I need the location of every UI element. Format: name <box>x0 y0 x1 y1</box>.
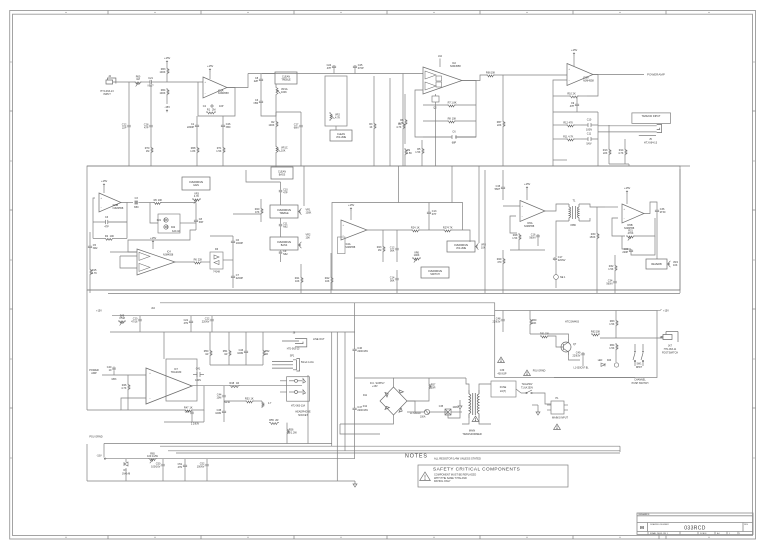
capacitor C11b <box>279 223 282 227</box>
svg-text:68P: 68P <box>452 142 457 145</box>
svg-text:47P: 47P <box>104 226 109 229</box>
wire <box>624 139 626 148</box>
wire <box>626 193 628 204</box>
border tick right <box>753 209 756 211</box>
wire <box>262 332 264 349</box>
wire <box>262 357 264 365</box>
svg-text:1R: 1R <box>205 353 208 356</box>
rail nest 3 <box>176 452 620 454</box>
svg-text:+15V: +15V <box>663 310 669 313</box>
svg-text:1.5K: 1.5K <box>609 323 614 326</box>
wire <box>125 459 127 462</box>
capacitor C10b <box>279 189 282 193</box>
wire <box>203 410 205 422</box>
svg-text:1.8K: 1.8K <box>190 150 195 153</box>
wire <box>350 210 352 220</box>
border mark top <box>619 11 621 13</box>
potentiometer VR5 <box>299 242 302 248</box>
svg-text:1R: 1R <box>265 353 268 356</box>
border mark top <box>154 11 156 13</box>
wire <box>280 182 282 189</box>
wire <box>404 156 406 166</box>
capacitor C38 mains <box>445 409 451 415</box>
potentiometer VR4 <box>299 208 302 214</box>
svg-text:INPUT: INPUT <box>103 93 111 96</box>
LED D23 <box>601 363 605 366</box>
wire drop D <box>336 332 338 481</box>
wire <box>529 311 531 319</box>
switch SW1a <box>633 344 636 366</box>
svg-text:100K: 100K <box>160 92 166 95</box>
svg-text:220NV: 220NV <box>558 259 566 262</box>
capacitor C41 <box>193 372 204 377</box>
svg-text:NJM4558: NJM4558 <box>113 207 124 210</box>
wire sw feed <box>516 389 521 393</box>
wire <box>190 324 192 332</box>
svg-text:560?: 560? <box>495 188 501 191</box>
svg-text:R12 47K: R12 47K <box>563 121 573 124</box>
capacitor C6 <box>423 135 476 139</box>
wire <box>573 55 575 66</box>
wire <box>555 250 557 257</box>
wire <box>407 411 424 413</box>
wire <box>553 159 567 161</box>
svg-text:N50: N50 <box>134 206 139 209</box>
svg-text:+15V: +15V <box>164 56 170 60</box>
wire <box>582 356 584 366</box>
svg-text:REMARKS: REMARKS <box>639 513 650 516</box>
svg-text:-15V: -15V <box>164 105 170 109</box>
op-amp IC1A <box>203 77 227 98</box>
wire <box>420 229 443 231</box>
bus mid 2 <box>108 293 680 295</box>
box VR2 network <box>325 76 347 126</box>
capacitor C47 <box>353 407 357 411</box>
svg-text:47N: 47N <box>178 466 183 469</box>
resistor R71 <box>223 146 225 154</box>
wire fb bottom <box>164 421 204 423</box>
wire <box>184 468 186 481</box>
svg-text:M63: M63 <box>112 378 117 381</box>
border tick top <box>386 11 388 15</box>
capacitor C49 <box>581 352 584 356</box>
ground mains earth <box>536 409 540 415</box>
capacitor C48 <box>501 318 504 322</box>
wire drop E <box>344 332 346 451</box>
wire <box>228 332 230 349</box>
svg-text:ALL RESISTOR 1/4W UNLESS STATE: ALL RESISTOR 1/4W UNLESS STATED <box>434 457 481 461</box>
potentiometer VR1C <box>276 145 278 154</box>
border tick right <box>753 407 756 409</box>
wire <box>222 128 224 146</box>
svg-text:1.5K: 1.5K <box>512 237 517 240</box>
svg-text:SWITCH: SWITCH <box>430 273 440 276</box>
wire IC5B out <box>644 202 657 214</box>
svg-text:1M: 1M <box>378 249 381 252</box>
wire <box>576 96 578 103</box>
svg-text:10K: 10K <box>281 150 286 153</box>
rail psu gnd <box>104 443 332 445</box>
wire <box>152 243 154 249</box>
svg-text:−: − <box>149 396 151 400</box>
transformer T1 reverb <box>569 204 579 221</box>
ground main <box>353 481 357 487</box>
diode D22 <box>164 225 168 229</box>
wire IC3B in rail <box>93 198 95 238</box>
op-amp IC5A <box>520 201 545 222</box>
diode D9 <box>124 462 128 466</box>
wire <box>300 128 302 166</box>
svg-text:10K: 10K <box>325 280 330 283</box>
capacitor C52 <box>205 463 208 467</box>
svg-text:10K: 10K <box>306 236 311 239</box>
svg-text:HTC/2N4403: HTC/2N4403 <box>565 321 580 324</box>
svg-text:VOLUME: VOLUME <box>336 136 347 139</box>
capacitor C44 <box>222 394 225 398</box>
svg-text:2200/16V: 2200/16V <box>357 409 368 412</box>
wire right fb rail <box>597 112 599 150</box>
wire <box>579 95 587 97</box>
warning triangle fuse 2 <box>524 370 531 376</box>
svg-text:HTJ-064-13: HTJ-064-13 <box>644 141 658 144</box>
resistor R12 <box>566 125 575 127</box>
svg-text:R10 2K: R10 2K <box>567 92 576 95</box>
svg-text:22K: 22K <box>497 124 502 127</box>
capacitor C11 <box>581 137 598 141</box>
wire drop VR7 feed <box>478 166 480 243</box>
title block tick <box>658 535 660 540</box>
wire <box>421 155 423 166</box>
wire <box>628 164 630 166</box>
connector P1 mains input <box>551 401 564 414</box>
wire IC2 fb right <box>455 81 476 138</box>
resistor R3 <box>374 122 376 130</box>
wire Q7 emit <box>569 355 581 360</box>
resistor R30 <box>597 232 599 240</box>
svg-text:NJM4558: NJM4558 <box>583 79 594 82</box>
svg-text:1K: 1K <box>189 406 192 409</box>
svg-text:470: 470 <box>497 261 502 264</box>
IC2 internal network <box>436 76 442 87</box>
wire <box>127 391 129 410</box>
switch SW1b <box>641 344 644 366</box>
svg-text:R53: R53 <box>245 397 250 400</box>
border mark top <box>247 11 249 13</box>
border tick top <box>200 11 202 15</box>
border mark top <box>340 11 342 13</box>
wire tape gnd <box>609 163 629 165</box>
svg-text:C21: C21 <box>148 77 153 80</box>
power +15V IC1A <box>209 69 211 71</box>
wire <box>196 116 198 124</box>
wire clip to IC4 <box>128 230 196 252</box>
wire <box>396 251 398 262</box>
wire <box>162 459 164 463</box>
switch SW2 mains <box>521 390 537 394</box>
op-amp IC5B <box>622 204 644 223</box>
power +15V IC3B <box>103 184 105 186</box>
wire <box>190 316 192 320</box>
wire xfmr pri bot <box>462 418 469 424</box>
svg-text:68N: 68N <box>294 127 299 130</box>
svg-text:100N: 100N <box>195 379 201 382</box>
bus middle bottom <box>87 289 680 291</box>
wire <box>631 236 655 255</box>
warning triangle mains <box>554 424 561 430</box>
wire tone tap <box>276 111 301 113</box>
connector J6 line out jack <box>282 339 307 347</box>
svg-text:22K: 22K <box>603 152 608 155</box>
wire od stack top <box>246 170 281 182</box>
wire fb 1 <box>121 398 184 410</box>
connector J5 tape jack <box>657 124 662 132</box>
capacitor C22b <box>210 318 213 322</box>
svg-text:HTJ-063-13A: HTJ-063-13A <box>291 405 306 408</box>
wire IC2 out <box>462 75 486 81</box>
svg-text:SW1: SW1 <box>637 364 643 366</box>
svg-text:100K: 100K <box>281 91 287 94</box>
wire C28 drop <box>150 85 152 124</box>
resistor R63b <box>616 319 618 327</box>
border mark right <box>753 160 755 162</box>
capacitor C5 <box>88 245 92 249</box>
svg-text:4.7K: 4.7K <box>335 117 340 120</box>
border tick bottom <box>572 536 574 540</box>
svg-text:DRAWING NUMBER: DRAWING NUMBER <box>650 523 669 526</box>
wire <box>396 281 398 293</box>
svg-text:0/1.2W: 0/1.2W <box>289 432 298 435</box>
svg-text:39P: 39P <box>199 221 204 224</box>
svg-text:T1.6A 250V: T1.6A 250V <box>521 386 533 389</box>
resistor R28 <box>519 233 521 241</box>
wire <box>502 190 504 200</box>
border mark bottom <box>433 536 435 538</box>
border tick top <box>665 11 667 15</box>
wire <box>614 272 616 280</box>
border mark right <box>753 259 755 261</box>
wire clip in <box>150 203 158 224</box>
wire <box>300 112 302 124</box>
wire <box>402 130 404 166</box>
wire <box>275 84 277 86</box>
resistor R18 <box>153 203 162 205</box>
wire <box>260 199 262 207</box>
resistor R51 <box>229 349 231 357</box>
wire C22 drop <box>128 82 130 124</box>
wire <box>103 444 105 458</box>
border tick left <box>10 110 13 112</box>
wire <box>275 128 277 145</box>
wire <box>502 311 504 319</box>
wire <box>195 203 197 220</box>
wire <box>423 120 447 122</box>
svg-text:NJM4558: NJM4558 <box>163 254 174 257</box>
power +15V IC4A <box>350 208 352 210</box>
svg-text:470K: 470K <box>628 232 634 235</box>
wire IC2 fb left <box>415 90 423 137</box>
svg-text:100K: 100K <box>269 124 275 127</box>
svg-text:T2AL250V: T2AL250V <box>522 383 533 386</box>
svg-text:2M: 2M <box>212 108 215 111</box>
svg-text:100K: 100K <box>306 211 312 214</box>
wire left drop2 <box>86 444 88 481</box>
potentiometer VR3 <box>192 199 201 201</box>
border mark bottom <box>65 536 67 538</box>
capacitor C21b <box>189 320 193 324</box>
wire <box>553 95 569 97</box>
wire <box>502 128 504 166</box>
svg-text:1000P: 1000P <box>236 242 244 245</box>
resistor R55 <box>269 423 279 425</box>
wire <box>228 357 230 365</box>
wire tape feed 1 <box>598 125 657 127</box>
wire <box>614 255 616 264</box>
wire bridge bottom <box>340 415 394 424</box>
power +15V IC5B <box>626 191 628 193</box>
svg-text:M: M <box>640 525 644 530</box>
svg-text:L1 630CM: L1 630CM <box>410 413 421 415</box>
svg-text:1.5K: 1.5K <box>216 150 221 153</box>
svg-text:TRANSFORMER: TRANSFORMER <box>462 433 482 436</box>
svg-text:150K: 150K <box>590 236 596 239</box>
svg-text:TAPE/CD INPUT: TAPE/CD INPUT <box>642 115 661 118</box>
wire <box>206 467 208 481</box>
LED D23 lamp <box>614 363 618 367</box>
op-amp IC3A <box>567 64 593 86</box>
rail nest 2 <box>168 450 620 452</box>
svg-text:56K: 56K <box>390 280 395 283</box>
wire <box>150 154 152 166</box>
wire Q7 base <box>549 336 561 347</box>
wire <box>373 76 375 122</box>
wire <box>614 284 616 293</box>
wire od in 2 <box>120 256 137 268</box>
wire <box>502 265 504 293</box>
border tick right <box>753 110 756 112</box>
capacitor C15 <box>501 186 505 190</box>
footswitch section box <box>495 311 657 378</box>
power +15V footswitch <box>657 309 662 310</box>
wire J4 to R60 <box>116 81 135 83</box>
wire IC5A in <box>503 205 520 207</box>
amplifier IC7 TDA2030 box <box>166 359 197 401</box>
capacitor C36 <box>655 209 659 213</box>
wire fb 2 <box>193 386 204 410</box>
wire <box>615 327 617 338</box>
wire <box>93 237 104 239</box>
power -15V bias <box>166 110 168 112</box>
wire <box>596 207 598 232</box>
wire <box>619 446 621 452</box>
wire <box>222 116 224 124</box>
border tick right <box>753 308 756 310</box>
svg-text:VOLUME: VOLUME <box>456 247 467 250</box>
svg-text:FUSE: FUSE <box>500 386 507 389</box>
wire <box>89 232 91 245</box>
capacitor C45 <box>222 410 226 414</box>
resistor R9 <box>405 148 407 156</box>
power +15V IC4 <box>152 241 154 243</box>
svg-text:BASS: BASS <box>281 244 288 247</box>
wire <box>615 311 617 320</box>
svg-text:22K: 22K <box>198 258 203 261</box>
wire <box>222 154 224 166</box>
wire <box>553 111 598 113</box>
op-amp IC4A <box>341 220 367 240</box>
potentiometer VR2 <box>330 112 332 121</box>
svg-text:REV: REV <box>744 524 749 526</box>
svg-text:C38: C38 <box>185 410 190 413</box>
transistor Q2 <box>432 94 439 105</box>
rail +15V bottom <box>112 315 495 317</box>
resistor R24 <box>411 230 420 232</box>
svg-text:1M: 1M <box>146 150 149 153</box>
wire <box>125 468 127 481</box>
svg-text:NJM4558: NJM4558 <box>524 225 535 228</box>
wire <box>209 357 211 365</box>
wire <box>202 261 210 263</box>
wire top bus <box>262 73 333 75</box>
wire <box>224 400 245 402</box>
wire drop A <box>354 303 356 348</box>
contact plug B <box>289 390 306 394</box>
wire <box>502 322 504 332</box>
potentiometer VR6 <box>412 258 421 260</box>
wire IC5A fb <box>510 216 517 233</box>
svg-text:100A: 100A <box>420 416 426 419</box>
svg-text:1.5K: 1.5K <box>608 268 613 271</box>
capacitor C16 <box>536 234 539 238</box>
wire <box>421 140 423 147</box>
wire <box>340 424 380 434</box>
wire <box>232 279 234 288</box>
wire <box>127 375 129 383</box>
wire <box>452 230 470 242</box>
connector JK7 footswitch jack <box>661 332 679 343</box>
wire <box>537 405 539 409</box>
wire <box>196 154 198 166</box>
svg-text:10M: 10M <box>217 397 222 400</box>
svg-text:NOTES: NOTES <box>405 454 428 460</box>
wire <box>261 104 276 116</box>
wire bridge to fuse <box>407 401 415 412</box>
wire <box>150 128 152 146</box>
wire <box>166 96 168 104</box>
op-amp IC4 composite pair <box>137 249 175 275</box>
wire dc supply left <box>355 377 394 379</box>
wire IC3A fb rail <box>553 80 567 166</box>
capacitor C14 <box>395 277 398 281</box>
resistor R46 <box>128 383 130 391</box>
box OVERDRIVE SWITCH <box>421 267 449 278</box>
bus mid 3 <box>160 303 495 311</box>
connector TAPE/CD INPUT label box <box>632 113 671 124</box>
wire <box>451 411 462 413</box>
wire <box>608 125 610 148</box>
wire <box>120 316 122 318</box>
wire <box>113 371 115 375</box>
title block <box>637 513 753 535</box>
wire <box>232 244 234 260</box>
capacitor C38b <box>190 411 193 415</box>
svg-text:4.7K: 4.7K <box>398 122 403 125</box>
wire <box>196 128 198 146</box>
wire <box>537 238 539 246</box>
wire <box>260 215 262 222</box>
border mark left <box>10 457 12 459</box>
wire <box>587 75 598 97</box>
svg-text:TDA2030: TDA2030 <box>171 371 182 374</box>
